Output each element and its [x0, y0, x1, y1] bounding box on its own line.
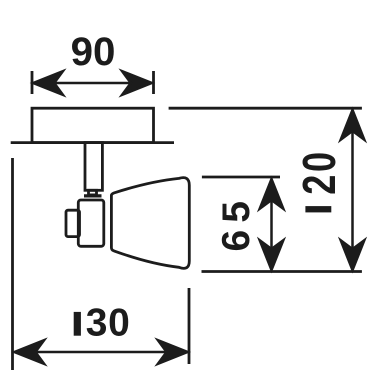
lamp shade bell [111, 178, 189, 269]
dim 130 left reference line [11, 158, 14, 370]
dim 90 left arrowhead [34, 72, 63, 95]
bottom reference line (shared 65 / 120) [202, 270, 362, 273]
svg-text:90: 90 [71, 29, 116, 74]
dim 65 top arrowhead [260, 179, 283, 208]
ceiling line left (plate bottom extension) [11, 141, 174, 144]
dim 130 right arrowhead [158, 341, 187, 364]
dim 120 top arrowhead [341, 110, 364, 139]
dim 65 top reference line [202, 176, 280, 179]
dimension label 130 [74, 301, 131, 344]
dim 120 arrow line [351, 118, 354, 262]
dim 130 arrow line [22, 351, 180, 354]
svg-text:20: 20 [293, 149, 345, 195]
dim 90 arrow line [40, 82, 146, 85]
dim 90 left tick [31, 71, 34, 94]
stem neck [89, 190, 97, 195]
lamp holder body [78, 200, 104, 246]
dim 90 right tick [152, 71, 155, 94]
stem flange [84, 194, 102, 197]
svg-text:65: 65 [215, 194, 258, 251]
ceiling line right [169, 107, 362, 110]
mounting plate [32, 108, 154, 142]
adjustment knob [66, 210, 80, 236]
dim 65 bottom arrowhead [260, 241, 283, 270]
dim 130 right reference line [188, 288, 191, 364]
dim 120 bottom arrowhead [341, 241, 364, 270]
dim 90 right arrowhead [123, 72, 152, 95]
dim 130 left arrowhead [15, 341, 44, 364]
dim 65 arrow line [270, 186, 273, 262]
stem [85, 143, 102, 191]
dimension label 120 [293, 149, 345, 212]
svg-text:30: 30 [86, 301, 131, 344]
